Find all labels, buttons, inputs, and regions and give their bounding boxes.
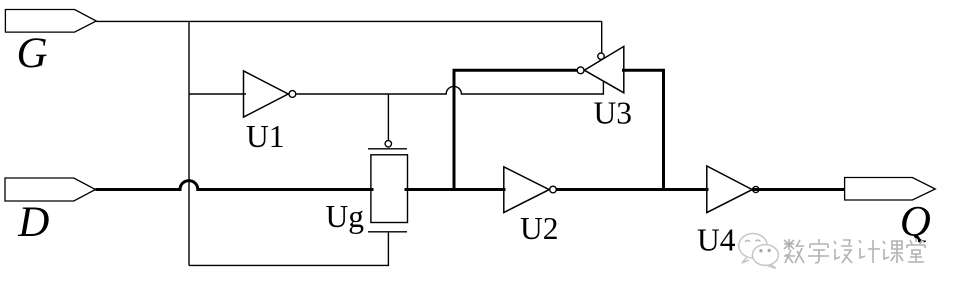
svg-text:Ug: Ug xyxy=(326,199,365,234)
watermark logo small bubble eyes xyxy=(759,249,771,253)
wire G rail xyxy=(96,20,601,22)
Ug PMOS bubble xyxy=(385,141,391,147)
transmission gate Ug rectangle xyxy=(371,155,408,223)
U3 output bubble xyxy=(577,67,584,74)
inverter U2 triangle xyxy=(504,167,549,213)
wire G branch vertical xyxy=(188,21,190,265)
wire left feedback from U3 output xyxy=(454,70,577,191)
watermark text emboss highlight xyxy=(785,239,926,264)
wire U1 output with hop xyxy=(296,86,603,94)
wire right feedback to U3 input xyxy=(622,70,664,191)
U2 bubble xyxy=(550,186,557,193)
wire U2 output to U4 xyxy=(556,188,708,191)
svg-text:G: G xyxy=(17,30,48,77)
wire U4 output to Q port xyxy=(752,188,845,191)
svg-text:U1: U1 xyxy=(246,119,285,154)
tri-state inverter U3 triangle (points left) xyxy=(584,46,624,92)
svg-text:U2: U2 xyxy=(520,211,559,246)
inverter U4 triangle xyxy=(707,166,752,213)
wire D rail with hop xyxy=(96,181,374,190)
watermark logo big bubble eyes xyxy=(745,240,760,242)
svg-text:U4: U4 xyxy=(697,223,736,258)
wire Ug output to U2 xyxy=(405,188,506,191)
watermark logo small bubble xyxy=(752,245,778,266)
port Q xyxy=(845,178,936,201)
wire U1 input xyxy=(189,93,246,95)
U1 bubble xyxy=(289,91,296,98)
watermark wechat logo big bubble xyxy=(739,234,767,264)
inverter U1 triangle xyxy=(244,71,289,117)
wire stub to U3 bottom enable xyxy=(602,81,604,94)
U4 bubble (wire passes through) xyxy=(753,186,759,192)
wire Ug NMOS gate to bottom rail xyxy=(189,232,388,266)
Ug PMOS gate bar xyxy=(368,148,407,150)
watermark text gray strokes xyxy=(784,238,925,263)
Ug NMOS gate bar xyxy=(368,231,407,233)
wire branch to Ug PMOS gate xyxy=(387,94,389,141)
port D xyxy=(5,178,96,201)
svg-text:D: D xyxy=(17,199,49,246)
svg-text:U3: U3 xyxy=(594,96,633,131)
U3 enable bubble xyxy=(598,53,604,59)
port G xyxy=(5,10,96,33)
wire U3 top enable vertical xyxy=(601,21,603,52)
